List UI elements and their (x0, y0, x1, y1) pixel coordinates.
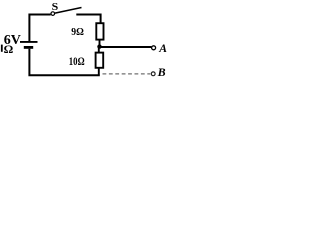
svg-text:9Ω: 9Ω (71, 26, 84, 38)
svg-text:A: A (158, 42, 167, 55)
svg-text:B: B (157, 65, 166, 79)
svg-text:S: S (52, 1, 59, 13)
svg-text:10Ω: 10Ω (69, 54, 85, 68)
svg-text:Ω: Ω (4, 42, 14, 56)
